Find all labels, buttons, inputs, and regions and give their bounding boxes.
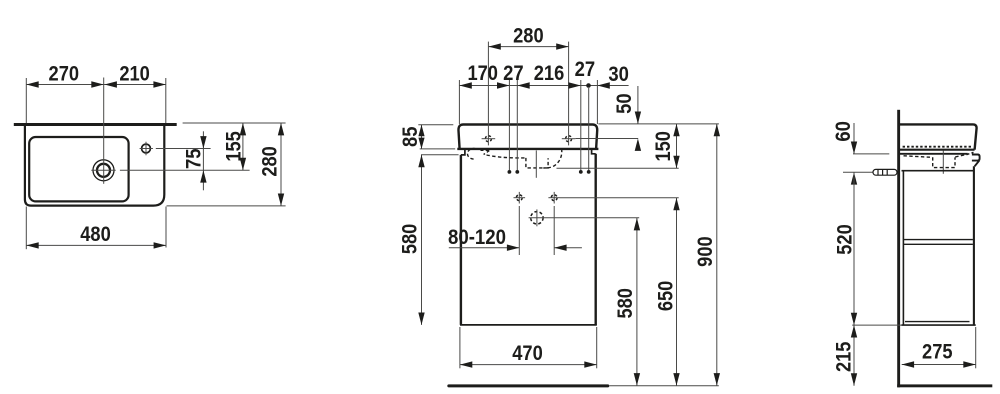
svg-text:85: 85: [399, 126, 422, 147]
svg-text:900: 900: [694, 236, 717, 267]
svg-text:170: 170: [467, 62, 498, 85]
svg-text:270: 270: [49, 62, 80, 85]
svg-text:580: 580: [614, 288, 637, 319]
svg-text:30: 30: [608, 63, 629, 86]
svg-text:27: 27: [575, 58, 596, 81]
svg-text:216: 216: [534, 62, 565, 85]
svg-text:210: 210: [119, 62, 150, 85]
svg-text:280: 280: [258, 146, 281, 177]
svg-text:27: 27: [503, 62, 524, 85]
svg-text:520: 520: [834, 224, 857, 255]
svg-text:280: 280: [513, 25, 544, 48]
svg-text:480: 480: [80, 223, 111, 246]
svg-text:60: 60: [832, 121, 855, 142]
svg-text:215: 215: [833, 341, 856, 372]
svg-text:470: 470: [512, 342, 543, 365]
svg-text:80-120: 80-120: [448, 226, 506, 249]
svg-text:150: 150: [652, 131, 675, 162]
svg-text:275: 275: [922, 340, 953, 363]
svg-text:75: 75: [182, 148, 205, 169]
svg-text:650: 650: [655, 281, 678, 312]
svg-text:580: 580: [399, 224, 422, 255]
svg-text:155: 155: [223, 131, 246, 162]
svg-text:50: 50: [613, 93, 636, 114]
